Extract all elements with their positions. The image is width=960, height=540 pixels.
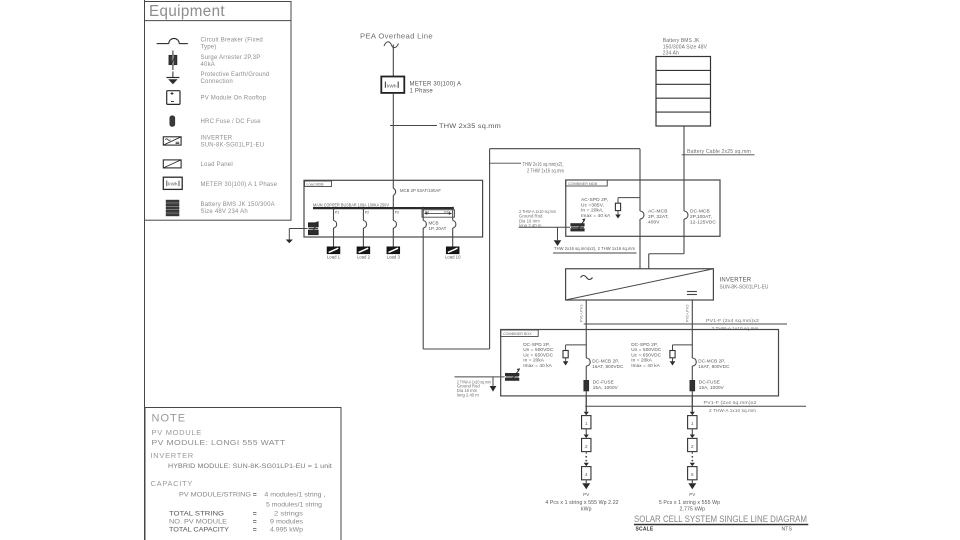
svg-text:2P, 32AT,: 2P, 32AT,: [648, 214, 669, 220]
svg-text:DC-MCB: DC-MCB: [690, 209, 710, 215]
svg-text:PV: PV: [689, 492, 696, 497]
svg-text:1 Phase: 1 Phase: [410, 89, 434, 95]
svg-text:THW 2x16 sq.mm(x2),: THW 2x16 sq.mm(x2),: [523, 162, 564, 168]
svg-text:INVERTER: INVERTER: [720, 278, 752, 284]
svg-text:kWh: kWh: [387, 84, 397, 90]
svg-text:1: 1: [585, 421, 588, 426]
svg-text:PV MODULE: LONGI 555 WATT: PV MODULE: LONGI 555 WATT: [152, 440, 287, 447]
svg-text:150/300A Size 48V: 150/300A Size 48V: [663, 44, 708, 50]
svg-text:long 2.40 m: long 2.40 m: [457, 393, 479, 398]
svg-text:kWp: kWp: [581, 507, 592, 513]
svg-text:long 2.40 m: long 2.40 m: [519, 223, 542, 228]
svg-text:4.995 kWp: 4.995 kWp: [270, 526, 303, 533]
svg-text:4 modules/1 string ,: 4 modules/1 string ,: [264, 491, 325, 498]
svg-text:12-125VDC: 12-125VDC: [690, 219, 716, 225]
svg-text:PV Module On Rooftop: PV Module On Rooftop: [201, 96, 267, 102]
svg-text:=: =: [253, 526, 257, 533]
svg-text:Battery BMS JK 150/300A: Battery BMS JK 150/300A: [201, 202, 275, 208]
svg-text:234 Ah: 234 Ah: [663, 51, 679, 57]
svg-text:P2: P2: [365, 211, 369, 215]
svg-text:PV1-F (2x4 sq.mm)x2: PV1-F (2x4 sq.mm)x2: [704, 400, 757, 405]
svg-text:MAIN COPPER BUSBAR 100A 100KA: MAIN COPPER BUSBAR 100A 100KA 250V: [313, 202, 389, 207]
svg-text:2 THW 1x16 sq.mm: 2 THW 1x16 sq.mm: [527, 168, 564, 174]
svg-text:METER 30(100) A: METER 30(100) A: [410, 82, 462, 88]
svg-text:INVERTER: INVERTER: [151, 451, 194, 460]
svg-text:Load 1: Load 1: [327, 255, 341, 260]
svg-text:=: =: [253, 511, 257, 518]
svg-text:PV MODULE/STRING: PV MODULE/STRING: [179, 491, 251, 498]
svg-text:Size 48V 234 Ah: Size 48V 234 Ah: [201, 209, 248, 215]
svg-text:DC-MCB 2P,: DC-MCB 2P,: [698, 358, 725, 363]
svg-text:2: 2: [585, 444, 588, 449]
svg-text:5 Pcs x 1 string x 555 Wp: 5 Pcs x 1 string x 555 Wp: [659, 500, 720, 506]
svg-text:=: =: [253, 491, 257, 498]
svg-text:2: 2: [691, 444, 694, 449]
svg-text:Surge Arrester 2P,3P: Surge Arrester 2P,3P: [201, 55, 261, 61]
svg-text:SCALE: SCALE: [636, 527, 654, 533]
svg-text:4: 4: [585, 472, 588, 477]
svg-text:2 strings: 2 strings: [274, 511, 304, 518]
svg-text:HRC Fuse / DC Fuse: HRC Fuse / DC Fuse: [201, 119, 262, 125]
svg-text:INVERTER: INVERTER: [201, 136, 233, 142]
svg-text:THW 2x16 sq.mm(x2), 2 THW 1x16: THW 2x16 sq.mm(x2), 2 THW 1x16 sq.mm: [554, 246, 635, 252]
svg-text:PV1-F (2x4 sq.mm)x2: PV1-F (2x4 sq.mm)x2: [706, 318, 759, 323]
svg-text:1P, 20AT: 1P, 20AT: [429, 226, 447, 231]
svg-text:=: =: [253, 518, 257, 525]
svg-text:Equipment: Equipment: [149, 3, 225, 20]
svg-text:PV: PV: [583, 492, 590, 497]
svg-text:16AT, 800VDC: 16AT, 800VDC: [592, 364, 624, 369]
svg-text:HYBRID MODULE: SUN-8K-SG01LP1-: HYBRID MODULE: SUN-8K-SG01LP1-EU = 1 uni…: [168, 463, 332, 470]
svg-text:SUN-8K-SG01LP1-EU: SUN-8K-SG01LP1-EU: [720, 284, 769, 290]
svg-text:Imax = 40 kA: Imax = 40 kA: [581, 213, 611, 219]
svg-text:4 Pcs x 1 string x 555 Wp 2.22: 4 Pcs x 1 string x 555 Wp 2.22: [545, 500, 618, 506]
svg-text:MCB 2P 63AT/100AF: MCB 2P 63AT/100AF: [400, 188, 441, 194]
svg-text:9 modules: 9 modules: [270, 518, 304, 525]
svg-text:Imax = 40 kA: Imax = 40 kA: [631, 363, 660, 368]
svg-text:Load MDB: Load MDB: [307, 182, 325, 186]
svg-text:Load 10: Load 10: [445, 255, 461, 260]
svg-text:2 THW-A 1x10 sq.mm: 2 THW-A 1x10 sq.mm: [709, 408, 756, 413]
svg-text:COMBINER MDB: COMBINER MDB: [568, 182, 598, 186]
svg-text:15A, 1000V: 15A, 1000V: [593, 385, 619, 390]
svg-text:Circuit Breaker (Fixed: Circuit Breaker (Fixed: [201, 38, 263, 44]
svg-text:Load 3: Load 3: [387, 255, 401, 260]
svg-text:NO. PV MODULE: NO. PV MODULE: [169, 518, 227, 525]
svg-text:PV MODULE: PV MODULE: [152, 428, 202, 437]
svg-text:In = 20kA,: In = 20kA,: [581, 208, 604, 214]
svg-text:Load Panel: Load Panel: [201, 162, 233, 168]
svg-text:P1: P1: [335, 211, 339, 215]
svg-text:NTS: NTS: [782, 527, 793, 533]
svg-text:PV2+,PV2-: PV2+,PV2-: [686, 303, 690, 322]
svg-text:Connection: Connection: [201, 79, 233, 85]
svg-text:AC-MCB: AC-MCB: [648, 209, 668, 215]
svg-text:TOTAL CAPACITY: TOTAL CAPACITY: [169, 526, 229, 533]
svg-text:5: 5: [691, 472, 694, 477]
svg-text:2P,100AT,: 2P,100AT,: [690, 214, 712, 220]
svg-text:P3: P3: [395, 211, 399, 215]
svg-text:PV1+,PV1-: PV1+,PV1-: [580, 303, 584, 322]
svg-text:Battery BMS JK: Battery BMS JK: [663, 38, 700, 44]
svg-text:CAPACITY: CAPACITY: [151, 479, 194, 488]
svg-text:Imax = 40 kA: Imax = 40 kA: [523, 363, 552, 368]
svg-text:DC-FUSE: DC-FUSE: [699, 379, 720, 384]
svg-text:DC-FUSE: DC-FUSE: [593, 379, 614, 384]
svg-text:1: 1: [691, 421, 694, 426]
svg-text:Battery Cable 2x25 sq.mm: Battery Cable 2x25 sq.mm: [687, 149, 751, 155]
svg-text:Uc =385V,: Uc =385V,: [581, 202, 604, 208]
svg-text:DC-MCB 2P,: DC-MCB 2P,: [592, 358, 619, 363]
svg-text:NOTE: NOTE: [152, 413, 187, 425]
svg-text:15A, 1000V: 15A, 1000V: [699, 385, 725, 390]
svg-text:kWh: kWh: [168, 181, 178, 186]
svg-text:THW 2x35 sq.mm: THW 2x35 sq.mm: [439, 124, 501, 130]
svg-text:Load 2: Load 2: [357, 255, 371, 260]
svg-text:400V: 400V: [648, 219, 660, 225]
svg-text:40kA: 40kA: [201, 62, 215, 68]
svg-text:METER 30(100) A 1 Phase: METER 30(100) A 1 Phase: [201, 182, 278, 188]
svg-text:16AT, 800VDC: 16AT, 800VDC: [698, 364, 730, 369]
svg-text:PEA Overhead Line: PEA Overhead Line: [360, 31, 433, 40]
svg-text:TOTAL STRING: TOTAL STRING: [169, 511, 224, 518]
svg-text:Protective Earth/Ground: Protective Earth/Ground: [201, 72, 270, 78]
svg-text:MCB: MCB: [429, 221, 439, 226]
svg-text:5 modules/1 string: 5 modules/1 string: [266, 501, 322, 508]
svg-text:COMBINER BOX: COMBINER BOX: [503, 332, 532, 336]
svg-text:Type): Type): [201, 44, 217, 50]
svg-text:SUN-8K-SG01LP1-EU: SUN-8K-SG01LP1-EU: [201, 142, 265, 148]
svg-text:AC-SPD 2P,: AC-SPD 2P,: [581, 197, 608, 203]
svg-text:2,775 kWp: 2,775 kWp: [679, 507, 705, 513]
svg-text:SOLAR CELL SYSTEM SINGLE LINE: SOLAR CELL SYSTEM SINGLE LINE DIAGRAM: [634, 514, 807, 524]
